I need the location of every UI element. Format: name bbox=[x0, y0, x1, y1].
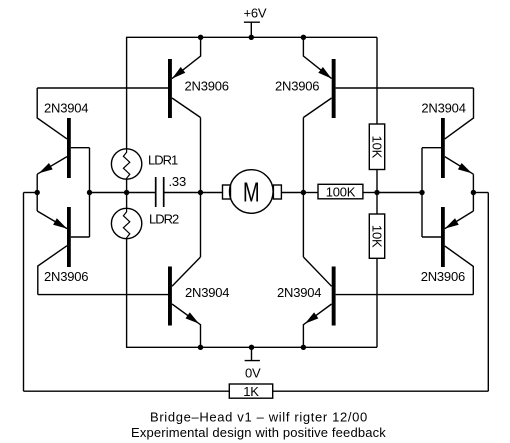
label 10K lower (rotated) bbox=[369, 225, 384, 248]
wire right pair base tie bbox=[422, 148, 441, 237]
wire center node to motor left terminal bbox=[201, 192, 223, 194]
wire between 10K resistors bbox=[376, 170, 378, 215]
svg-text:2N3904: 2N3904 bbox=[185, 285, 229, 300]
label LDR2 bbox=[149, 211, 179, 226]
svg-text:2N3906: 2N3906 bbox=[275, 79, 319, 94]
wire outer loop right vertical bbox=[487, 193, 489, 392]
wire outer loop left vertical bbox=[23, 193, 25, 392]
label .33 bbox=[169, 174, 186, 189]
resistor 1K box bbox=[229, 384, 272, 398]
wire between LDR1 and LDR2 bbox=[126, 179, 128, 208]
wire right 10K chain upper segment bbox=[376, 37, 378, 124]
label M motor bbox=[243, 177, 260, 208]
wire left pair base tie bbox=[71, 148, 90, 237]
junction dot top rail +6V bbox=[249, 35, 254, 40]
label 10K upper (rotated) bbox=[369, 136, 384, 159]
caption line 1 bbox=[150, 409, 368, 424]
junction dot right pair bases bbox=[419, 190, 424, 195]
wire base line top-right (Q2 base to node) bbox=[336, 87, 474, 89]
junction dot motor left node bbox=[198, 190, 203, 195]
label LDR1 bbox=[148, 152, 178, 167]
wire bottom 0V rail bbox=[126, 346, 377, 348]
wire 100K to right chain node bbox=[363, 192, 377, 194]
wire motor right terminal to node bbox=[282, 192, 304, 194]
transistor Q6 2N3906 left pair bottom bbox=[37, 207, 71, 267]
junction dot left pair bases bbox=[87, 190, 92, 195]
svg-text:Experimental design with posit: Experimental design with positive feedba… bbox=[131, 425, 386, 440]
wire base line bottom-left (node to Q3 base) bbox=[38, 294, 168, 296]
svg-text:10K: 10K bbox=[369, 136, 384, 159]
junction dot left pair emitters bbox=[35, 190, 40, 195]
label +6V bbox=[244, 6, 267, 21]
svg-text:0V: 0V bbox=[245, 366, 261, 381]
junction dot bottom rail 0V bbox=[249, 345, 254, 350]
label 2N3906 left pair bbox=[44, 269, 88, 284]
svg-text:.33: .33 bbox=[169, 174, 186, 189]
wire LDR node to capacitor bbox=[127, 192, 156, 194]
motor M body bbox=[223, 170, 282, 214]
wire left pair bases to LDR node bbox=[90, 192, 127, 194]
wire top +6V rail bbox=[126, 36, 377, 38]
wire right pair emitter stubs bbox=[472, 174, 474, 211]
+6V power symbol bbox=[244, 22, 260, 37]
LDR2 photoresistor bbox=[111, 208, 141, 239]
wire base line bottom-right (Q4 base to node) bbox=[336, 294, 474, 296]
svg-text:2N3904: 2N3904 bbox=[44, 101, 88, 116]
wire right emitter node to outer loop bbox=[473, 192, 488, 194]
wire right pair bottom collector riser bbox=[445, 246, 474, 295]
wire left pair top collector riser bbox=[37, 88, 67, 139]
svg-text:2N3906: 2N3906 bbox=[44, 269, 88, 284]
wire outer loop bottom right of 1K bbox=[273, 390, 489, 392]
label 0V bbox=[245, 366, 261, 381]
label 2N3906 Q2 bbox=[275, 79, 319, 94]
transistor Q3 2N3904 bottom-left bbox=[168, 257, 201, 347]
wire outer loop bottom left of 1K bbox=[24, 390, 230, 392]
label 2N3904 Q3 bbox=[185, 285, 229, 300]
svg-text:2N3904: 2N3904 bbox=[421, 101, 465, 116]
junction dot motor right node bbox=[301, 190, 306, 195]
junction dot bottom rail left bbox=[198, 345, 203, 350]
wire left pair bottom collector riser bbox=[38, 246, 67, 295]
wire capacitor to center node bbox=[164, 192, 201, 194]
wire motor-right node to 100K bbox=[303, 192, 318, 194]
svg-text:LDR1: LDR1 bbox=[148, 152, 178, 167]
transistor Q8 2N3906 right pair bottom bbox=[441, 207, 473, 267]
transistor Q5 2N3904 left pair top bbox=[37, 118, 71, 178]
junction dot top rail right bbox=[301, 35, 306, 40]
label 100K bbox=[326, 184, 356, 199]
transistor Q7 2N3904 right pair top bbox=[441, 118, 473, 178]
svg-text:M: M bbox=[243, 177, 260, 208]
junction dot right pair emitters bbox=[471, 190, 476, 195]
resistor 100K box bbox=[318, 184, 363, 199]
svg-text:2N3904: 2N3904 bbox=[277, 285, 321, 300]
transistor Q1 2N3906 top-left bbox=[168, 37, 201, 118]
wire left pair emitter stubs bbox=[36, 174, 38, 211]
0V ground symbol bbox=[245, 347, 260, 360]
svg-text:2N3906: 2N3906 bbox=[421, 269, 465, 284]
transistor Q2 2N3906 top-right bbox=[303, 37, 335, 118]
caption line 2 bbox=[131, 425, 386, 440]
svg-text:LDR2: LDR2 bbox=[149, 211, 179, 226]
label 2N3906 Q1 bbox=[185, 79, 229, 94]
label 2N3906 right pair bbox=[421, 269, 465, 284]
wire left LDR chain upper segment bbox=[126, 37, 128, 149]
wire Q2/Q4 collector riser to motor-right node bbox=[302, 118, 304, 258]
label 2N3904 left pair bbox=[44, 101, 88, 116]
wire right pair top collector riser bbox=[445, 88, 474, 139]
wire below lower 10K to bottom rail bbox=[376, 258, 378, 347]
wire left emitter node to outer loop bbox=[24, 192, 38, 194]
transistor Q4 2N3904 bottom-right bbox=[303, 257, 335, 347]
svg-text:100K: 100K bbox=[326, 184, 356, 199]
resistor 10K upper box bbox=[369, 124, 384, 170]
label 2N3904 Q4 bbox=[277, 285, 321, 300]
junction dot bottom rail right bbox=[301, 345, 306, 350]
resistor 10K lower box bbox=[369, 214, 384, 258]
label 2N3904 right pair bbox=[421, 101, 465, 116]
junction dot 10K divider node bbox=[374, 190, 379, 195]
svg-text:1K: 1K bbox=[243, 384, 259, 399]
wire below LDR2 to bottom rail bbox=[126, 239, 128, 348]
wire base line top-left (node to Q1 base) bbox=[37, 87, 168, 89]
wire 100K node to right pair bases bbox=[377, 192, 422, 194]
svg-text:Bridge–Head v1 – wilf rigter: Bridge–Head v1 – wilf rigter 12/00 bbox=[150, 409, 368, 424]
label 1K bbox=[243, 384, 259, 399]
junction dot top rail left bbox=[198, 35, 203, 40]
svg-text:10K: 10K bbox=[369, 225, 384, 248]
wire Q1/Q3 collector riser to center node bbox=[200, 118, 202, 258]
svg-text:2N3906: 2N3906 bbox=[185, 79, 229, 94]
svg-text:+6V: +6V bbox=[244, 6, 267, 21]
capacitor .33 plates bbox=[156, 177, 164, 207]
junction dot LDR divider node bbox=[124, 190, 129, 195]
LDR1 photoresistor bbox=[111, 149, 141, 180]
